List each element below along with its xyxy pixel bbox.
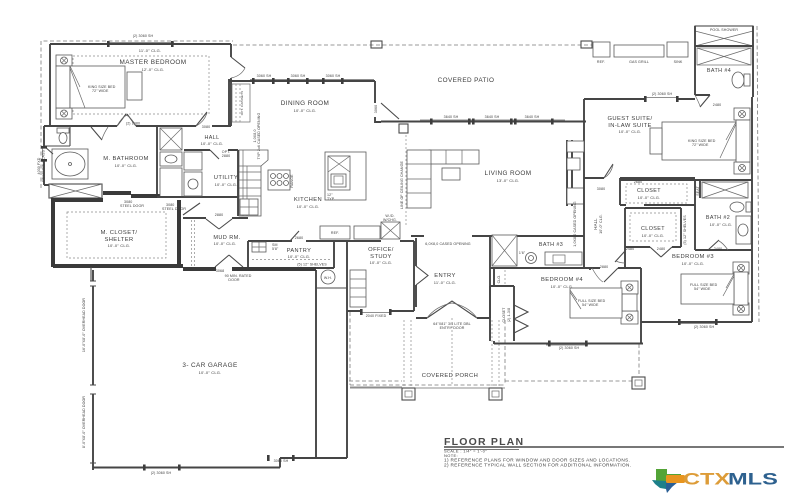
bath #4 [695, 26, 753, 107]
ctxmls logo texas icon [652, 469, 685, 493]
svg-text:ENTRY: ENTRY [434, 273, 456, 279]
window tick marks [41, 41, 718, 471]
svg-text:KITCHEN: KITCHEN [294, 197, 322, 203]
closet upper (guest) [620, 178, 695, 250]
svg-text:11'-0" CLG.: 11'-0" CLG. [139, 48, 162, 53]
svg-text:(5) 12" SHELVES: (5) 12" SHELVES [683, 215, 687, 245]
shower m closet top [49, 184, 102, 198]
svg-text:6,0X8,0 CASED OPENING: 6,0X8,0 CASED OPENING [425, 242, 471, 246]
svg-text:8'-0"X8'-0" OVERHEAD DOOR: 8'-0"X8'-0" OVERHEAD DOOR [82, 396, 86, 448]
svg-text:(5) 12" SHELVES: (5) 12" SHELVES [297, 263, 327, 267]
svg-text:(2) 3060 SH: (2) 3060 SH [151, 471, 172, 475]
svg-text:2680: 2680 [295, 236, 303, 240]
svg-text:12'-0" CLG.: 12'-0" CLG. [142, 67, 165, 72]
svg-text:10'-0" CLG.: 10'-0" CLG. [642, 233, 665, 238]
entry closet [490, 286, 514, 341]
svg-text:BATH #3: BATH #3 [539, 242, 563, 248]
svg-text:10'-0" CLG.: 10'-0" CLG. [599, 214, 603, 234]
interior doors [44, 57, 728, 282]
floor plan title [444, 436, 784, 468]
svg-text:10'-0" CLG.: 10'-0" CLG. [370, 260, 393, 265]
svg-text:72" WIDE: 72" WIDE [92, 89, 109, 93]
svg-text:CLOSET: CLOSET [637, 188, 661, 194]
svg-text:TYP.: TYP. [327, 197, 335, 201]
svg-text:2680: 2680 [634, 180, 642, 184]
svg-text:10'-0" CLG.: 10'-0" CLG. [201, 141, 224, 146]
utility cabinets and w/d [184, 152, 202, 196]
svg-text:2480: 2480 [714, 247, 722, 251]
svg-text:REF.: REF. [331, 231, 339, 235]
svg-text:GUEST SUITE/: GUEST SUITE/ [608, 116, 653, 122]
svg-text:1'6": 1'6" [519, 251, 526, 255]
svg-text:FLOOR PLAN: FLOOR PLAN [444, 436, 524, 448]
svg-text:16'-0"X8'-0" OVERHEAD DOOR: 16'-0"X8'-0" OVERHEAD DOOR [82, 298, 86, 353]
svg-text:HALL: HALL [593, 218, 598, 230]
svg-text:3- CAR GARAGE: 3- CAR GARAGE [182, 362, 237, 369]
svg-text:3080: 3080 [597, 187, 605, 191]
bath #2 [695, 180, 752, 250]
m closet label [67, 200, 186, 258]
roof column at patio left [371, 41, 382, 48]
svg-text:2) REFERENCE TYPICAL WALL SECT: 2) REFERENCE TYPICAL WALL SECTION FOR AD… [444, 463, 631, 468]
svg-text:BEDROOM #4: BEDROOM #4 [541, 277, 583, 283]
svg-text:2480: 2480 [713, 103, 721, 107]
svg-text:LINE OF CEILING CHANGE: LINE OF CEILING CHANGE [400, 161, 404, 209]
svg-text:3060 SH: 3060 SH [257, 74, 272, 78]
svg-text:(2) 3060 SH: (2) 3060 SH [694, 325, 715, 329]
dining room label [257, 74, 378, 113]
tub m bath [52, 149, 88, 179]
svg-text:3080: 3080 [202, 125, 210, 129]
toilet m bath [57, 128, 69, 144]
bedroom #3 [618, 247, 752, 344]
kitchen ref and w/d closet [320, 214, 400, 239]
pool shower [695, 26, 753, 46]
svg-text:10'-0" CLG.: 10'-0" CLG. [297, 204, 320, 209]
guest suite walls [584, 97, 752, 322]
bath #3 [490, 178, 600, 268]
svg-text:1,0X8,0 CASED OPENING: 1,0X8,0 CASED OPENING [573, 201, 577, 247]
office/study [334, 241, 414, 318]
svg-text:REF.: REF. [597, 60, 605, 64]
full bed bedroom4 [570, 281, 638, 324]
svg-text:10'-0" CLG.: 10'-0" CLG. [288, 254, 311, 259]
roof overhang dashed outline left/top [41, 26, 759, 322]
closet lower (bedroom3) [625, 208, 687, 251]
covered porch dashed [349, 312, 645, 400]
svg-text:OFFICE/: OFFICE/ [368, 247, 394, 253]
svg-text:MASTER BEDROOM: MASTER BEDROOM [119, 59, 186, 66]
svg-text:3640 SH: 3640 SH [485, 115, 500, 119]
garage labels [82, 298, 289, 475]
utility room [157, 150, 238, 197]
water heater [316, 270, 347, 288]
svg-text:BEDROOM #3: BEDROOM #3 [672, 254, 714, 260]
svg-text:(2) 1-3/8: (2) 1-3/8 [507, 308, 511, 322]
hall right vertical [573, 187, 625, 268]
range cooktop [268, 170, 294, 190]
garage walls [90, 269, 347, 470]
sectional sofa [407, 150, 479, 208]
opt cabinets strip right of master [232, 84, 250, 122]
master bedroom walls [50, 43, 231, 126]
svg-text:STEEL DOOR: STEEL DOOR [162, 207, 186, 211]
svg-text:4030 FXD: 4030 FXD [37, 157, 41, 174]
svg-text:2480: 2480 [657, 247, 665, 251]
svg-text:M. BATHROOM: M. BATHROOM [103, 156, 149, 162]
svg-text:CLO.: CLO. [497, 275, 501, 284]
svg-text:COVERED PORCH: COVERED PORCH [422, 373, 478, 379]
svg-text:54" WIDE: 54" WIDE [694, 287, 711, 291]
m. bathroom label [37, 149, 149, 182]
svg-text:2880: 2880 [600, 265, 608, 269]
svg-text:10'-0" CLG.: 10'-0" CLG. [108, 243, 131, 248]
linen cabinet column [160, 128, 182, 197]
svg-text:BATH #2: BATH #2 [706, 215, 730, 221]
master bedroom label [119, 34, 186, 72]
svg-text:(2) 3060 SH: (2) 3060 SH [559, 346, 580, 350]
svg-text:OBSCURE GLASS: OBSCURE GLASS [42, 149, 46, 182]
roof column at patio right [581, 41, 592, 48]
svg-text:UTILITY: UTILITY [214, 175, 238, 181]
hall (top) label [126, 122, 224, 147]
svg-text:SINK: SINK [674, 60, 683, 64]
svg-text:2880: 2880 [215, 213, 223, 217]
svg-text:10'-0" CLG.: 10'-0" CLG. [215, 182, 238, 187]
mud room [183, 150, 252, 282]
svg-text:3068: 3068 [216, 269, 224, 273]
entry double door [416, 266, 477, 330]
svg-text:MLS: MLS [728, 471, 778, 489]
svg-text:LIVING ROOM: LIVING ROOM [484, 170, 531, 177]
svg-text:TYP 2x6 CASED OPENING: TYP 2x6 CASED OPENING [257, 113, 261, 160]
svg-text:BATH #4: BATH #4 [707, 68, 731, 74]
svg-text:W/CHG.: W/CHG. [383, 218, 397, 222]
svg-text:10'-0" CLG.: 10'-0" CLG. [638, 195, 661, 200]
svg-text:54" WIDE: 54" WIDE [582, 303, 599, 307]
svg-text:RANGE: RANGE [290, 174, 294, 188]
svg-text:CTX: CTX [683, 471, 731, 489]
svg-text:10'-0" CLG.: 10'-0" CLG. [710, 222, 733, 227]
entry [416, 236, 490, 318]
svg-text:3640 SH: 3640 SH [525, 115, 540, 119]
svg-text:2480: 2480 [626, 247, 634, 251]
svg-text:DINING ROOM: DINING ROOM [281, 100, 329, 107]
svg-text:CLOSET: CLOSET [641, 226, 665, 232]
kitchen counters left [239, 150, 268, 216]
king bed guest [650, 108, 750, 174]
svg-text:11'-0" CLG.: 11'-0" CLG. [434, 280, 457, 285]
master bedroom ceiling dashed rect [73, 56, 209, 114]
svg-text:SEAT: SEAT [696, 186, 700, 196]
svg-text:5'8": 5'8" [272, 247, 279, 251]
bedroom #4 [494, 265, 643, 350]
outdoor kitchen [593, 42, 688, 64]
svg-text:2040 FIXED: 2040 FIXED [366, 314, 387, 318]
guest suite label [608, 92, 673, 134]
svg-text:3060 SH: 3060 SH [291, 74, 306, 78]
pantry [247, 236, 334, 268]
svg-text:W.H.: W.H. [324, 276, 332, 280]
kitchen island [325, 152, 366, 201]
svg-text:COVERED PATIO: COVERED PATIO [438, 77, 495, 84]
m closet/shelter thick walls [51, 193, 183, 281]
svg-text:(2) 3060 SH: (2) 3060 SH [133, 34, 154, 38]
svg-text:3060 SH: 3060 SH [274, 459, 289, 463]
svg-text:1,0X8,0: 1,0X8,0 [253, 129, 257, 142]
living room top wall with windows [381, 115, 586, 133]
living room [400, 135, 532, 225]
svg-text:10'-0" CLG.: 10'-0" CLG. [682, 261, 705, 266]
bedroom4 closet doors [514, 305, 528, 333]
svg-text:3060: 3060 [374, 105, 378, 113]
svg-text:10'-0" CLG.: 10'-0" CLG. [115, 163, 138, 168]
m. bathroom walls [43, 126, 158, 198]
fireplace media wall [567, 140, 584, 206]
svg-text:13'-0" CLG.: 13'-0" CLG. [497, 178, 520, 183]
svg-text:10'-0" CLG.: 10'-0" CLG. [619, 129, 642, 134]
full bed bedroom3 [681, 262, 749, 315]
svg-text:OPT. CABINETS: OPT. CABINETS [240, 91, 244, 116]
svg-text:(2) 3060 SH: (2) 3060 SH [652, 92, 673, 96]
svg-text:STEEL DOOR: STEEL DOOR [120, 204, 144, 208]
svg-text:M. CLOSET/: M. CLOSET/ [101, 230, 138, 236]
living room south wall / cased opening [411, 236, 584, 246]
svg-text:3640 SH: 3640 SH [444, 115, 459, 119]
svg-text:72" WIDE: 72" WIDE [692, 143, 709, 147]
svg-text:3060 SH: 3060 SH [326, 74, 341, 78]
svg-text:2880: 2880 [222, 154, 230, 158]
kitchen label [294, 197, 322, 209]
svg-text:GAS GRILL: GAS GRILL [629, 60, 649, 64]
svg-text:10'-0" CLG.: 10'-0" CLG. [199, 370, 222, 375]
svg-text:10'-0" CLG.: 10'-0" CLG. [294, 108, 317, 113]
svg-text:10'-0" CLG.: 10'-0" CLG. [214, 241, 237, 246]
dining room walls [229, 79, 399, 125]
svg-text:DOOR: DOOR [228, 278, 239, 282]
ctxmls logo text [683, 471, 778, 489]
king bed master [56, 55, 142, 119]
svg-text:POOL SHOWER: POOL SHOWER [710, 28, 738, 32]
